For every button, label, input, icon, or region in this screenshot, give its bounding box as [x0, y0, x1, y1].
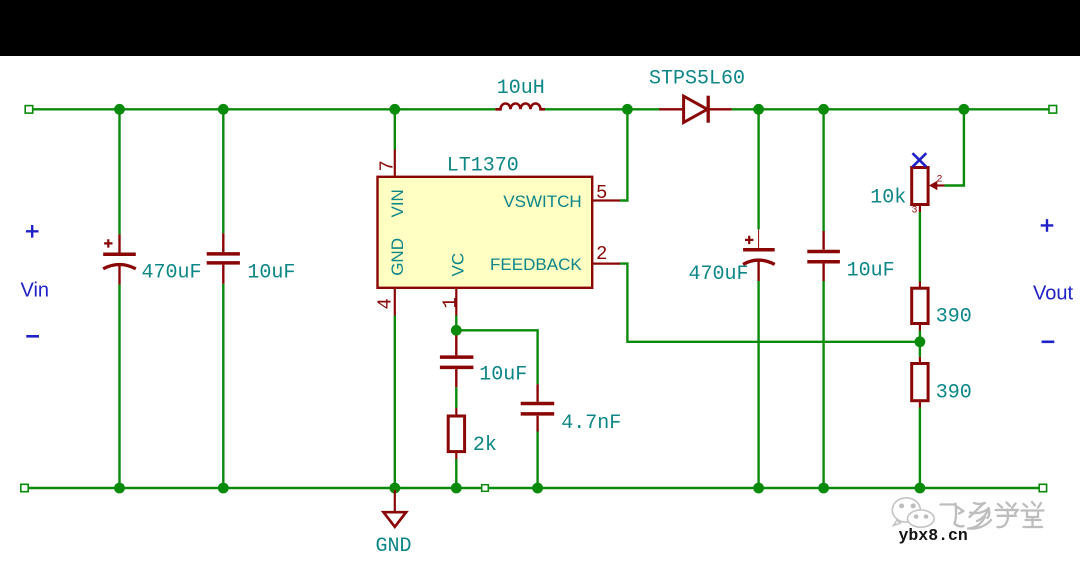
svg-text:390: 390 — [936, 382, 972, 405]
inductor L1 10uH — [495, 104, 545, 110]
svg-text:VIN: VIN — [388, 189, 407, 217]
node label: minus (Vin) — [26, 335, 39, 338]
black letterbox band — [0, 0, 1080, 56]
watermark logo (chat bubbles) — [892, 498, 934, 527]
node: top rail left open-square terminal — [25, 106, 33, 114]
junction: bottom rail pin4/GND — [389, 483, 400, 494]
junction: top rail VSWITCH — [622, 104, 633, 115]
wire: C4 column (output 10uF) — [822, 109, 824, 488]
capacitor C3 470uF (polarized, output) — [743, 229, 775, 281]
wire: RV1 bottom to R1 — [919, 212, 921, 282]
pin 4 U1 (GND) — [394, 288, 396, 316]
svg-text:2k: 2k — [473, 434, 497, 457]
wire: VSWITCH to top rail — [620, 109, 627, 200]
wire: R1 to divider node — [919, 331, 921, 342]
wire: C3 column (output 470uF) — [757, 109, 759, 488]
potentiometer RV1 10k — [912, 167, 945, 212]
watermark text 飞多学堂 (simplified strokes) — [941, 502, 1046, 530]
wire: 4.7nF to bottom rail — [536, 432, 538, 489]
svg-text:Vin: Vin — [21, 280, 50, 302]
junction: bottom rail 4.7nF — [532, 483, 543, 494]
svg-text:2: 2 — [596, 243, 607, 265]
wire: top rail between inductor and diode — [545, 108, 660, 110]
capacitor C5 10uF (VC filter) — [440, 336, 474, 388]
wire: 2k to bottom rail — [455, 459, 457, 488]
wiper arrow RV1 — [929, 181, 937, 191]
svg-text:ybx8.cn: ybx8.cn — [899, 526, 968, 545]
no-connect X marker on RV1 pin 1 — [913, 153, 927, 167]
junction: bottom rail C2 — [218, 483, 229, 494]
wire: C1 column (input 470uF) — [118, 109, 120, 488]
junction: bottom rail C3 — [753, 483, 764, 494]
wire: top rail right of diode to Vout+ — [732, 108, 1050, 110]
wire: bottom rail — [28, 487, 1040, 489]
junction: top rail C2 — [218, 104, 229, 115]
svg-text:1: 1 — [440, 297, 462, 308]
wire: C2 column (input 10uF) — [222, 109, 224, 488]
pin 7 U1 (VIN) — [394, 150, 396, 177]
junction: top rail pin7 — [389, 104, 400, 115]
svg-text:VSWITCH: VSWITCH — [503, 192, 581, 211]
svg-text:5: 5 — [596, 182, 607, 204]
svg-text:2: 2 — [937, 175, 943, 186]
svg-text:390: 390 — [936, 306, 972, 329]
junction: bottom rail C1 — [114, 483, 125, 494]
svg-text:4.7nF: 4.7nF — [561, 412, 621, 435]
pin 5 U1 (VSWITCH) — [592, 199, 620, 201]
svg-text:Vout: Vout — [1033, 283, 1073, 305]
svg-text:GND: GND — [376, 535, 412, 558]
node: bottom rail right open-square terminal — [1039, 484, 1046, 491]
capacitor C4 10uF (output) — [807, 231, 840, 281]
diode D1 STPS5L60 — [659, 96, 731, 123]
svg-text:470uF: 470uF — [689, 263, 749, 286]
resistor R3 2k — [448, 408, 464, 459]
wire: divider node to R2 — [919, 342, 921, 357]
svg-text:10uH: 10uH — [497, 77, 545, 100]
junction: top rail C1 — [114, 104, 125, 115]
junction: top rail C4 — [818, 104, 829, 115]
junction: top rail C3 — [753, 104, 764, 115]
svg-text:FEEDBACK: FEEDBACK — [490, 255, 582, 274]
svg-text:7: 7 — [377, 160, 399, 171]
node label: plus (Vin) — [26, 225, 39, 238]
node label: minus (Vout) — [1042, 340, 1055, 343]
svg-text:VC: VC — [449, 253, 468, 277]
wire: wiper of RV1 to top rail — [944, 109, 964, 185]
junction: bottom rail 2k — [451, 483, 462, 494]
ground symbol GND — [384, 490, 407, 527]
wire: FEEDBACK down and across to divider node — [620, 264, 919, 342]
svg-text:LT1370: LT1370 — [447, 155, 519, 178]
junction: top rail wiper — [959, 104, 970, 115]
junction: VC node — [451, 325, 462, 336]
svg-text:3: 3 — [912, 205, 918, 216]
svg-text:10uF: 10uF — [247, 261, 295, 284]
wire: top rail left segment (Vin+ to inductor) — [33, 108, 495, 110]
node: top rail right open-square terminal — [1049, 106, 1057, 114]
svg-text:470uF: 470uF — [142, 261, 202, 284]
wire: VC node down/right — [456, 316, 537, 385]
wire: VC 10uF to 2k link — [455, 387, 457, 408]
pin 1 U1 (VC) — [455, 288, 457, 316]
node: bottom rail left open-square terminal — [21, 484, 28, 491]
junction: divider node — [915, 336, 926, 347]
resistor R2 390 — [912, 357, 928, 408]
wire: U1 pin4 column to bottom rail — [394, 316, 396, 489]
op-amp U1 LT1370 body — [378, 177, 593, 288]
pin 2 U1 (FEEDBACK) — [592, 263, 620, 265]
svg-text:10uF: 10uF — [847, 260, 895, 283]
svg-text:4: 4 — [375, 298, 397, 309]
capacitor C1 470uF (polarized, input) — [103, 234, 136, 284]
svg-text:GND: GND — [388, 238, 407, 276]
junction: bottom rail R2 — [915, 483, 926, 494]
svg-text:STPS5L60: STPS5L60 — [649, 67, 745, 90]
node: unconnected wire-end square marker on bottom rail — [482, 485, 489, 492]
svg-text:10k: 10k — [870, 186, 906, 209]
wire: U1 pin7 column from top rail — [394, 109, 396, 149]
svg-text:10uF: 10uF — [479, 363, 527, 386]
capacitor C6 4.7nF — [521, 384, 555, 431]
node label: plus (Vout) — [1041, 219, 1054, 232]
resistor R1 390 — [912, 282, 928, 331]
wire: R2 to bottom rail — [919, 408, 921, 489]
capacitor C2 10uF (input) — [207, 233, 240, 283]
junction: bottom rail C4 — [818, 483, 829, 494]
